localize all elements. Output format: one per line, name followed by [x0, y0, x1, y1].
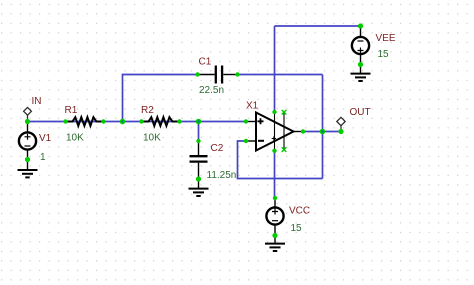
svg-text:VCC: VCC — [289, 206, 310, 217]
pin op-amp - input — [244, 139, 248, 143]
wire power vertical top — [274, 26, 276, 112]
pin R2 right — [177, 119, 181, 123]
pin R2 left — [139, 119, 143, 123]
pin op-amp top power — [272, 110, 276, 114]
ground below VEE — [351, 65, 371, 82]
pin op-amp output — [301, 129, 305, 133]
wire IN junction to V1 — [27, 122, 29, 133]
pin C1 right — [235, 72, 239, 76]
pin dots — [25, 23, 363, 238]
pin V1 bottom — [25, 157, 30, 162]
svg-text:22.5n: 22.5n — [199, 85, 224, 96]
wire op-amp output to OUT port — [303, 131, 341, 133]
capacitor C1 — [198, 66, 238, 84]
svg-text:C2: C2 — [211, 143, 224, 154]
node VEE top — [358, 23, 363, 28]
ground below C2 — [189, 179, 209, 196]
ground below V1 — [18, 160, 38, 178]
svg-text:V1: V1 — [39, 133, 52, 144]
unconnected pin line — [283, 112, 285, 149]
wire node B down to C2 — [198, 122, 200, 142]
svg-text:10K: 10K — [143, 133, 161, 144]
port IN — [24, 107, 32, 121]
power pin line — [274, 112, 276, 151]
capacitor C2 — [190, 141, 208, 179]
wire C1 right to OUT node top — [238, 74, 323, 76]
wire power vertical bottom to VCC — [274, 151, 276, 199]
unconnected pin X markers — [282, 110, 287, 152]
pin VEE bottom — [358, 62, 363, 67]
svg-text:OUT: OUT — [350, 107, 371, 118]
svg-text:C1: C1 — [199, 57, 212, 68]
port OUT — [337, 117, 345, 131]
pin VCC bottom — [272, 233, 277, 238]
wire feedback from - input down and right — [238, 141, 323, 179]
svg-text:11.25n: 11.25n — [207, 170, 237, 181]
pin R1 right — [101, 119, 105, 123]
pin C1 left — [195, 72, 199, 76]
pin C2 top — [196, 139, 200, 143]
pin op-amp bottom power — [272, 149, 276, 153]
svg-text:15: 15 — [291, 223, 303, 234]
svg-text:IN: IN — [32, 96, 42, 107]
wire main horizontal IN to op-amp + input — [28, 121, 247, 123]
node OUT junction — [320, 129, 326, 135]
ground below VCC — [265, 236, 285, 252]
power + mark — [272, 136, 276, 140]
svg-text:10K: 10K — [66, 133, 84, 144]
svg-text:R1: R1 — [65, 105, 78, 116]
svg-text:1: 1 — [40, 152, 46, 163]
wire OUT node vertical — [322, 75, 324, 179]
svg-text:VEE: VEE — [376, 33, 396, 44]
pin OUT port — [338, 129, 343, 134]
node A junction — [120, 119, 126, 125]
pin op-amp + input — [244, 119, 248, 123]
pin R1 left — [63, 119, 67, 123]
svg-text:X1: X1 — [246, 101, 259, 112]
node B junction — [196, 119, 202, 125]
resistor R2 — [142, 117, 180, 126]
source VEE — [352, 26, 369, 65]
svg-text:R2: R2 — [141, 105, 154, 116]
pin C2 bottom — [196, 176, 201, 181]
pin VCC top — [273, 196, 277, 200]
wire top rail VEE — [275, 25, 361, 27]
svg-text:15: 15 — [378, 49, 390, 60]
resistor R1 — [66, 117, 104, 126]
wire node A up and to C1 left — [123, 75, 198, 122]
op-amp X1 — [246, 112, 303, 151]
node IN junction — [25, 119, 30, 124]
voltage source V1 — [19, 132, 36, 159]
junction dark centers — [121, 120, 323, 132]
source VCC — [266, 198, 283, 236]
